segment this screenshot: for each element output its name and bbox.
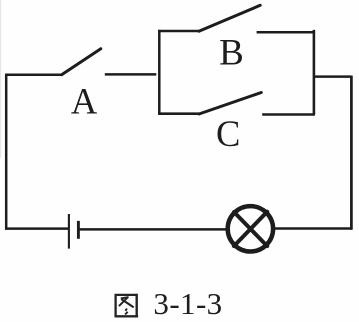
svg-text:B: B bbox=[219, 32, 244, 73]
lamp L1 circle bbox=[228, 206, 273, 251]
wire battery to lamp bbox=[78, 228, 226, 231]
switch A right contact wire bbox=[105, 73, 157, 76]
wire right vertical bbox=[350, 76, 353, 230]
caption character 图 (drawn) bbox=[115, 294, 139, 318]
wire lamp to right corner bbox=[275, 227, 352, 230]
switch B blade bbox=[199, 5, 260, 31]
battery short plate (negative) bbox=[77, 221, 80, 239]
wire B branch left bbox=[158, 30, 199, 33]
faint scan artifact at left edge bbox=[0, 0, 1, 158]
switch C right contact wire bbox=[262, 113, 315, 116]
battery long plate (positive) bbox=[68, 214, 70, 249]
wire box exit horizontal bbox=[313, 75, 352, 78]
lamp L1 cross stroke 2 bbox=[234, 212, 267, 246]
switch A blade bbox=[62, 49, 101, 75]
node: parallel box left vertical bbox=[158, 30, 161, 115]
switch C blade bbox=[199, 93, 261, 115]
svg-text:A: A bbox=[71, 81, 98, 122]
wire bottom left of battery bbox=[5, 227, 68, 230]
svg-text:C: C bbox=[216, 113, 240, 154]
node: parallel box right vertical bbox=[313, 30, 316, 115]
switch B right contact wire bbox=[257, 31, 315, 34]
svg-text:3-1-3: 3-1-3 bbox=[153, 286, 222, 321]
lamp L1 cross stroke 1 bbox=[234, 212, 267, 246]
wire left vertical bbox=[5, 74, 8, 230]
wire top-left horizontal bbox=[5, 73, 62, 76]
wire C branch left bbox=[158, 112, 199, 115]
